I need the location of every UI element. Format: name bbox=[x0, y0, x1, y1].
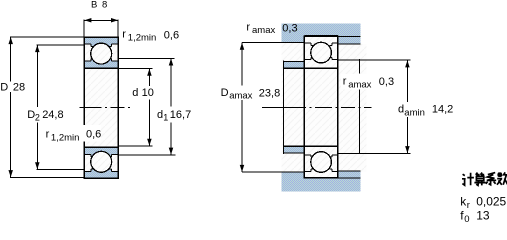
svg-text:amax: amax bbox=[229, 91, 252, 102]
svg-text:23,8: 23,8 bbox=[259, 87, 280, 99]
svg-text:0,3: 0,3 bbox=[282, 22, 297, 34]
svg-text:r: r bbox=[343, 76, 347, 88]
bearing internals bottom block bbox=[304, 155, 337, 172]
svg-text:24,8: 24,8 bbox=[42, 109, 63, 121]
shaft left face bbox=[282, 60, 284, 154]
centerline bbox=[262, 107, 372, 109]
算 bbox=[476, 173, 484, 175]
centerline bbox=[80, 107, 133, 109]
ball bottom bbox=[91, 151, 112, 172]
bearing internals top block bbox=[304, 43, 337, 60]
svg-text:13: 13 bbox=[476, 208, 490, 222]
svg-text:28: 28 bbox=[13, 82, 25, 94]
svg-text:amax: amax bbox=[348, 79, 371, 90]
inner ring bottom (blue) bbox=[84, 147, 118, 157]
Damax dimension bbox=[241, 43, 243, 173]
bearing white blocks bbox=[304, 36, 337, 68]
outer ring top internal lines bbox=[84, 44, 118, 61]
svg-text:r: r bbox=[46, 129, 50, 141]
svg-text:1,2min: 1,2min bbox=[51, 133, 80, 144]
housing right shoulder top bbox=[338, 37, 360, 44]
bearing outline bbox=[84, 37, 118, 179]
shaft shoulder bottom bbox=[284, 146, 305, 152]
svg-text:1,2min: 1,2min bbox=[128, 32, 157, 43]
housing top band bbox=[282, 23, 361, 36]
svg-text:d: d bbox=[398, 104, 404, 116]
d dimension bbox=[118, 69, 152, 146]
inner ring top (blue) bbox=[84, 59, 118, 69]
svg-text:D: D bbox=[0, 82, 8, 94]
d1 dimension bbox=[118, 58, 175, 155]
svg-text:0,3: 0,3 bbox=[379, 76, 394, 88]
housing bottom band bbox=[282, 178, 361, 191]
svg-text:r: r bbox=[122, 28, 126, 40]
outer ring bottom (blue) bbox=[84, 169, 118, 178]
D2 dimension bbox=[37, 45, 85, 169]
B dimension bbox=[84, 20, 118, 37]
svg-text:r: r bbox=[467, 200, 470, 211]
ball top bbox=[91, 43, 112, 64]
svg-text:8: 8 bbox=[102, 0, 107, 11]
housing left shoulder top bbox=[282, 36, 305, 42]
svg-text:d: d bbox=[132, 87, 138, 99]
D dimension bbox=[10, 37, 84, 177]
r 1,2min 0,6 bottom label bbox=[82, 125, 101, 141]
figure background hatch bbox=[84, 37, 118, 178]
figure background hatch bbox=[282, 23, 361, 191]
bearing outline bbox=[283, 35, 337, 178]
svg-text:amin: amin bbox=[404, 107, 425, 118]
outer ring top (blue) bbox=[84, 37, 118, 46]
svg-text:amax: amax bbox=[252, 25, 275, 36]
internal lines bottom block bbox=[84, 154, 118, 171]
damin dimension bbox=[338, 60, 411, 153]
svg-text:D: D bbox=[221, 87, 229, 99]
housing left shoulder bottom bbox=[282, 172, 305, 178]
计算系数 (drawn strokes) bbox=[462, 172, 507, 185]
计 bbox=[462, 174, 466, 185]
svg-text:r: r bbox=[246, 21, 250, 33]
数 bbox=[497, 172, 502, 177]
shaft shoulder top bbox=[284, 62, 305, 68]
svg-text:10: 10 bbox=[142, 87, 154, 99]
svg-text:0: 0 bbox=[464, 214, 469, 222]
svg-text:0,6: 0,6 bbox=[86, 129, 101, 141]
svg-text:0,025: 0,025 bbox=[476, 195, 506, 209]
svg-text:14,2: 14,2 bbox=[432, 104, 453, 116]
svg-text:1: 1 bbox=[163, 113, 168, 123]
housing outline lines bbox=[242, 37, 361, 178]
svg-text:B: B bbox=[91, 0, 97, 11]
svg-text:2: 2 bbox=[35, 113, 40, 123]
r amax vertical line + label bbox=[359, 59, 361, 154]
系 bbox=[487, 173, 496, 181]
housing right shoulder bottom bbox=[338, 171, 360, 178]
svg-text:0,6: 0,6 bbox=[164, 29, 179, 41]
svg-text:16,7: 16,7 bbox=[170, 109, 191, 121]
